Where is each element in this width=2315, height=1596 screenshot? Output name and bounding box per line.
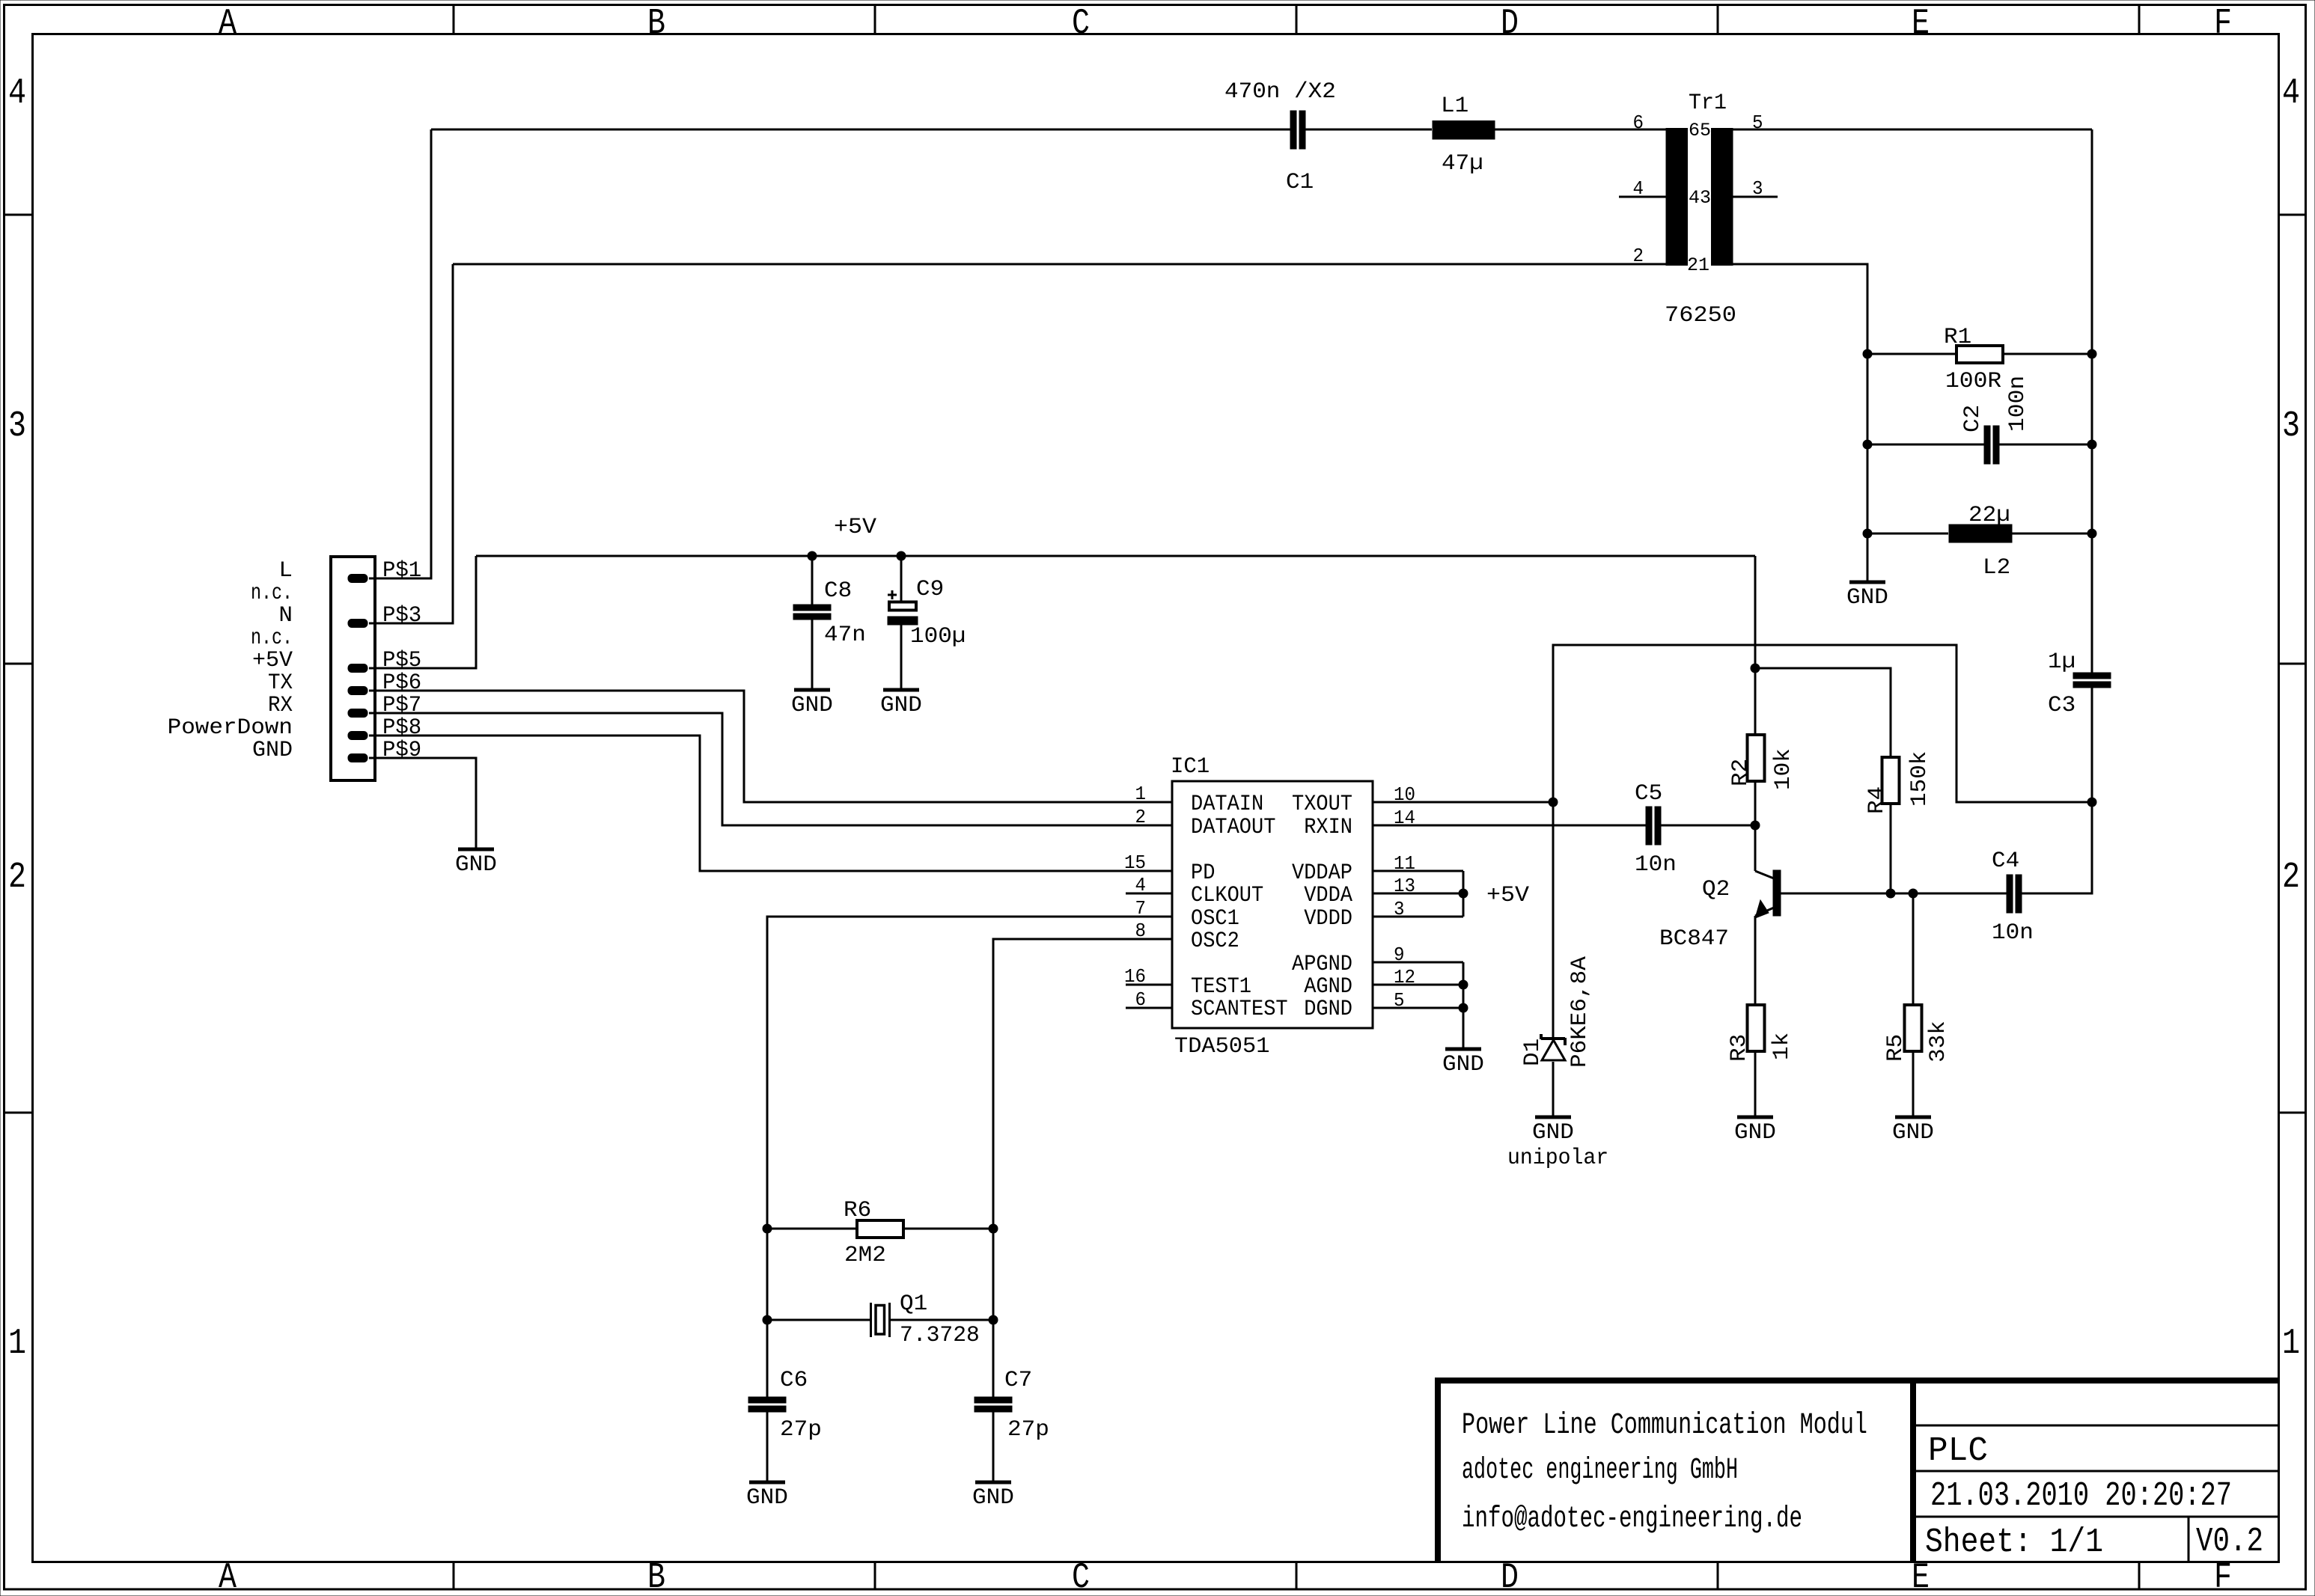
svg-text:DATAOUT: DATAOUT xyxy=(1191,815,1275,840)
junction L2 left xyxy=(1863,529,1873,539)
junction R6 left xyxy=(763,1224,772,1234)
svg-text:2: 2 xyxy=(2282,857,2300,898)
pin number 14 xyxy=(1394,807,1415,829)
wire R5 to ground xyxy=(1912,1051,1915,1117)
junction Q1 left xyxy=(763,1315,772,1325)
svg-text:Sheet: 1/1: Sheet: 1/1 xyxy=(1925,1523,2103,1562)
svg-text:N: N xyxy=(278,603,293,629)
pin number 15 xyxy=(1124,851,1146,874)
node +5V rail label xyxy=(834,515,876,540)
svg-text:1k: 1k xyxy=(1769,1033,1795,1060)
inductor L2 22u xyxy=(1949,503,2012,581)
svg-text:76250: 76250 xyxy=(1665,303,1736,328)
svg-text:DGND: DGND xyxy=(1304,997,1352,1022)
net label N xyxy=(278,603,293,629)
ground (R5) xyxy=(1892,1117,1934,1146)
wire P$7 RX to IC1 DATAOUT xyxy=(369,713,1172,825)
svg-text:L2: L2 xyxy=(1983,555,2010,581)
wire P$3 to AC line N xyxy=(369,264,453,623)
svg-text:GND: GND xyxy=(791,693,833,718)
pin number 9 xyxy=(1394,944,1405,966)
svg-text:APGND: APGND xyxy=(1292,952,1352,977)
wire Q2 base node xyxy=(1781,893,1913,895)
capacitor C2 100n xyxy=(1960,376,2031,464)
svg-text:2: 2 xyxy=(1135,806,1147,828)
resistor R6 2M2 xyxy=(844,1198,903,1268)
ground (R3) xyxy=(1734,1117,1776,1146)
pin number 10 xyxy=(1394,783,1415,806)
svg-text:7.3728: 7.3728 xyxy=(900,1323,980,1348)
wire C8 to ground xyxy=(811,620,814,690)
wire N line to Tr1 pin 2 xyxy=(453,263,1666,266)
svg-text:2M2: 2M2 xyxy=(844,1243,886,1268)
net label +5V xyxy=(252,648,293,673)
wire P$9 to ground xyxy=(369,758,476,849)
svg-text:2: 2 xyxy=(1633,245,1644,267)
svg-text:10n: 10n xyxy=(1635,852,1677,878)
wire C6 to ground xyxy=(766,1412,769,1482)
svg-text:CLKOUT: CLKOUT xyxy=(1191,883,1263,908)
wire TEST1 stub pin 16 xyxy=(1126,984,1172,986)
svg-text:C: C xyxy=(1072,4,1090,44)
svg-text:IC1: IC1 xyxy=(1171,754,1210,780)
ground (Tr1 secondary) xyxy=(1846,582,1888,611)
svg-text:PD: PD xyxy=(1191,860,1215,886)
junction TXOUT net at C3 xyxy=(2087,798,2097,807)
svg-text:47µ: 47µ xyxy=(1442,151,1483,177)
pin number 6 xyxy=(1135,988,1147,1011)
svg-text:A: A xyxy=(219,4,237,44)
pin number 5 xyxy=(1752,111,1763,134)
junction C2 right xyxy=(2087,440,2097,450)
wire right rail (Tr1 pin5 down to C3) xyxy=(2091,129,2093,673)
svg-text:R4: R4 xyxy=(1864,786,1890,814)
wire R6 right xyxy=(903,1228,993,1230)
junction VDDA node xyxy=(1459,889,1468,899)
svg-text:Q1: Q1 xyxy=(900,1291,927,1317)
svg-text:C3: C3 xyxy=(2048,693,2075,718)
svg-text:TX: TX xyxy=(268,670,293,696)
resistor R3 1k xyxy=(1727,1005,1795,1062)
junction C9 on +5V rail xyxy=(897,551,906,561)
capacitor C4 10n xyxy=(1992,849,2034,946)
net label L xyxy=(278,558,293,584)
wire base node down to R5 xyxy=(1912,893,1915,1005)
svg-text:GND: GND xyxy=(1442,1052,1484,1077)
svg-text:3: 3 xyxy=(2282,406,2300,447)
svg-text:27p: 27p xyxy=(1007,1417,1049,1443)
wire R4 to base node xyxy=(1890,804,1892,893)
connector (9-pin header) xyxy=(331,557,375,780)
net label TX xyxy=(268,670,293,696)
svg-text:43: 43 xyxy=(1689,187,1711,209)
junction R1 left xyxy=(1863,349,1873,359)
pin label P$6 xyxy=(382,670,421,696)
junction Q2 collector node xyxy=(1751,821,1760,831)
wire RXIN pin14 to C5 xyxy=(1373,825,1646,827)
pin number 16 xyxy=(1124,965,1146,988)
net label GND xyxy=(252,738,293,763)
net label n.c. xyxy=(251,626,293,651)
svg-text:R2: R2 xyxy=(1728,759,1754,786)
wire Tr1 pin 1 down to ground xyxy=(1733,264,1867,582)
title text: sheet xyxy=(1925,1523,2103,1562)
junction L2 right xyxy=(2087,529,2097,539)
svg-text:P6KE6,8A: P6KE6,8A xyxy=(1567,956,1593,1068)
svg-text:+5V: +5V xyxy=(1486,883,1529,908)
junction TXOUT at D1 xyxy=(1549,798,1558,807)
svg-text:15: 15 xyxy=(1124,851,1146,874)
resistor R4 150k xyxy=(1864,751,1933,814)
svg-text:PowerDown: PowerDown xyxy=(168,715,293,741)
wire Tr1 pin 5 to right rail xyxy=(1733,129,2092,131)
svg-text:F: F xyxy=(2214,1558,2232,1596)
op-amp U1 / modem IC1 TDA5051 xyxy=(1171,754,1373,1060)
wire R2 to collector node xyxy=(1754,781,1757,825)
svg-text:2: 2 xyxy=(8,857,26,898)
svg-text:P$5: P$5 xyxy=(382,648,421,673)
pin number 2 xyxy=(1633,245,1644,267)
svg-text:AGND: AGND xyxy=(1304,974,1352,1000)
svg-text:SCANTEST: SCANTEST xyxy=(1191,997,1288,1022)
wire C2 to rail xyxy=(1999,444,2092,446)
pin number 5 xyxy=(1394,989,1405,1012)
svg-text:E: E xyxy=(1912,4,1930,44)
svg-text:n.c.: n.c. xyxy=(251,626,293,651)
svg-text:C1: C1 xyxy=(1286,170,1314,195)
svg-text:PLC: PLC xyxy=(1928,1432,1988,1470)
svg-text:C5: C5 xyxy=(1635,781,1662,807)
svg-text:P$8: P$8 xyxy=(382,715,421,741)
svg-text:GND: GND xyxy=(1846,585,1888,611)
junction AGND node xyxy=(1459,980,1468,990)
ground (C8) xyxy=(791,690,833,718)
svg-text:21: 21 xyxy=(1687,254,1709,276)
wire CLKOUT stub pin 4 xyxy=(1126,893,1172,895)
junction base/R5 xyxy=(1909,889,1918,899)
svg-text:Tr1: Tr1 xyxy=(1689,91,1727,116)
svg-text:C2: C2 xyxy=(1960,405,1986,432)
wire APGND/AGND/DGND to ground xyxy=(1373,962,1463,1049)
svg-text:10n: 10n xyxy=(1992,920,2034,946)
pin numbers 2-1 inner xyxy=(1687,254,1709,276)
svg-text:F: F xyxy=(2214,4,2232,44)
svg-text:D1: D1 xyxy=(1520,1039,1546,1066)
wire +5V branch to R4 xyxy=(1755,668,1891,757)
svg-text:TDA5051: TDA5051 xyxy=(1174,1034,1269,1060)
inductor L1 47u xyxy=(1433,94,1495,177)
ground (C6) xyxy=(746,1482,788,1511)
svg-text:VDDA: VDDA xyxy=(1304,883,1352,908)
svg-text:1: 1 xyxy=(1135,783,1147,805)
svg-text:C8: C8 xyxy=(824,578,852,604)
junction C8 on +5V rail xyxy=(808,551,817,561)
svg-text:GND: GND xyxy=(1532,1120,1574,1146)
svg-text:Q2: Q2 xyxy=(1702,877,1730,902)
svg-text:P$6: P$6 xyxy=(382,670,421,696)
svg-text:unipolar: unipolar xyxy=(1507,1146,1608,1171)
svg-text:A: A xyxy=(219,1558,237,1596)
title text: project description xyxy=(1462,1409,1867,1536)
svg-text:P$3: P$3 xyxy=(382,603,421,629)
pin number 8 xyxy=(1135,920,1147,942)
svg-text:4: 4 xyxy=(1633,177,1644,200)
svg-text:P$1: P$1 xyxy=(382,558,421,584)
svg-text:TXOUT: TXOUT xyxy=(1292,792,1352,817)
wire to L2 xyxy=(1867,533,1948,535)
capacitor C7 27p xyxy=(975,1368,1049,1443)
svg-text:GND: GND xyxy=(1892,1120,1934,1146)
svg-text:100µ: 100µ xyxy=(910,624,966,649)
wire R3 to ground xyxy=(1754,1051,1757,1117)
net label n.c. xyxy=(251,581,293,606)
resistor R5 33k xyxy=(1883,1005,1951,1063)
svg-text:C: C xyxy=(1072,1558,1090,1596)
pin number 4 xyxy=(1633,177,1644,200)
pin number 11 xyxy=(1394,852,1415,875)
pin label P$8 xyxy=(382,715,421,741)
svg-text:150k: 150k xyxy=(1907,751,1933,807)
svg-text:+5V: +5V xyxy=(834,515,876,540)
svg-text:DATAIN: DATAIN xyxy=(1191,792,1263,817)
pin number 3 xyxy=(1752,177,1763,200)
svg-text:VDDAP: VDDAP xyxy=(1292,860,1352,886)
svg-text:GND: GND xyxy=(746,1485,788,1511)
svg-text:100n: 100n xyxy=(2005,376,2031,432)
title block frame xyxy=(1435,1378,2279,1563)
svg-text:info@adotec-engineering.de: info@adotec-engineering.de xyxy=(1462,1502,1802,1536)
svg-text:C9: C9 xyxy=(916,577,944,602)
pin number 12 xyxy=(1394,966,1415,988)
svg-text:BC847: BC847 xyxy=(1659,926,1729,952)
ground (D1, unipolar) xyxy=(1532,1117,1574,1146)
wire +5V to C9 xyxy=(900,556,903,602)
wire VDDAP/VDDA/VDDD to +5V xyxy=(1373,871,1463,917)
svg-text:4: 4 xyxy=(2282,73,2300,114)
wire OSC2 pin8 to crystal right column xyxy=(993,939,1172,1397)
svg-text:65: 65 xyxy=(1689,120,1711,141)
svg-text:R1: R1 xyxy=(1944,325,1971,350)
svg-text:B: B xyxy=(647,1558,665,1596)
svg-text:L: L xyxy=(278,558,293,584)
pin number 4 xyxy=(1135,874,1147,896)
svg-text:n.c.: n.c. xyxy=(251,581,293,606)
pin label P$3 xyxy=(382,603,421,629)
wire TXOUT node up and over to C3 xyxy=(1553,645,2092,1039)
capacitor C5 10n xyxy=(1635,781,1677,878)
wire D1 to ground xyxy=(1552,1062,1555,1117)
svg-text:C4: C4 xyxy=(1992,849,2019,874)
wire Q1 left xyxy=(767,1319,870,1321)
transformer Tr1 76250 xyxy=(1619,91,1778,328)
svg-text:P$7: P$7 xyxy=(382,693,421,718)
svg-text:1µ: 1µ xyxy=(2048,649,2075,675)
title text: date xyxy=(1930,1477,2232,1515)
capacitor C9 100u polarized xyxy=(888,577,966,649)
wire TXOUT pin10 to D1 node xyxy=(1373,801,1553,804)
svg-text:RX: RX xyxy=(268,693,293,718)
transient diode D1 P6KE6,8A xyxy=(1520,956,1593,1068)
capacitor C6 27p xyxy=(748,1368,822,1443)
svg-text:3: 3 xyxy=(1752,177,1763,200)
wire C4 to Q2 base node xyxy=(1913,893,2007,895)
wire SCANTEST stub pin 6 xyxy=(1126,1007,1172,1009)
svg-text:6: 6 xyxy=(1633,111,1644,134)
svg-text:4: 4 xyxy=(8,73,26,114)
ground (connector) xyxy=(455,849,497,878)
svg-text:RXIN: RXIN xyxy=(1304,815,1352,840)
svg-text:3: 3 xyxy=(8,406,26,447)
svg-text:+5V: +5V xyxy=(252,648,293,673)
svg-text:R6: R6 xyxy=(844,1198,871,1223)
net label PowerDown xyxy=(168,715,293,741)
pin numbers 6-5 inner xyxy=(1689,120,1711,141)
pin number 2 xyxy=(1135,806,1147,828)
wire P$6 TX to IC1 DATAIN xyxy=(369,691,1172,802)
svg-text:GND: GND xyxy=(455,852,497,878)
crystal Q1 7.3728 xyxy=(871,1291,980,1348)
svg-text:D: D xyxy=(1501,1558,1519,1596)
wire R6 left xyxy=(767,1228,857,1230)
pin label P$7 xyxy=(382,693,421,718)
pin number 6 xyxy=(1633,111,1644,134)
svg-text:33k: 33k xyxy=(1926,1021,1951,1063)
svg-text:GND: GND xyxy=(1734,1120,1776,1146)
pin number 1 xyxy=(1135,783,1147,805)
wire +5V down to R2 xyxy=(1754,556,1757,735)
capacitor C8 47n xyxy=(793,578,866,648)
capacitor C3 1u xyxy=(2048,649,2111,718)
svg-text:OSC2: OSC2 xyxy=(1191,929,1239,954)
wire to C2 xyxy=(1867,444,1984,446)
wire +5V rail xyxy=(476,555,1755,557)
wire C7 to ground xyxy=(992,1412,995,1482)
svg-text:R5: R5 xyxy=(1883,1034,1909,1062)
svg-text:27p: 27p xyxy=(780,1417,822,1443)
junction DGND node xyxy=(1459,1003,1468,1013)
pin label P$9 xyxy=(382,738,421,763)
junction R6 right xyxy=(989,1224,998,1234)
svg-text:VDDD: VDDD xyxy=(1304,906,1352,932)
wire +5V to C8 xyxy=(811,556,814,605)
svg-text:C7: C7 xyxy=(1004,1368,1032,1393)
pin label P$1 xyxy=(382,558,421,584)
svg-text:GND: GND xyxy=(972,1485,1014,1511)
svg-text:L1: L1 xyxy=(1441,94,1468,119)
svg-text:TEST1: TEST1 xyxy=(1191,974,1251,1000)
wire C1 to L1 xyxy=(1305,129,1432,131)
transistor Q2 BC847 xyxy=(1659,825,1781,952)
svg-text:100R: 100R xyxy=(1945,369,2001,394)
junction C2 left xyxy=(1863,440,1873,450)
junction base/R4 xyxy=(1886,889,1896,899)
wire P$8 PowerDown to IC1 PD xyxy=(369,736,1172,871)
wire Q1 right xyxy=(891,1319,993,1321)
ground (IC1) xyxy=(1442,1049,1484,1077)
svg-text:470n /X2: 470n /X2 xyxy=(1224,79,1336,105)
pin numbers 4-3 inner xyxy=(1689,187,1711,209)
svg-text:D: D xyxy=(1501,4,1519,44)
title text: version xyxy=(2196,1523,2263,1561)
wire L2 to rail xyxy=(2011,533,2092,535)
pin number 3 xyxy=(1394,898,1405,920)
pin number 7 xyxy=(1135,897,1147,920)
wire Q2 emitter to R3 xyxy=(1754,916,1757,1005)
wire C3 down to C4 node xyxy=(2022,688,2092,893)
svg-text:P$9: P$9 xyxy=(382,738,421,763)
resistor R1 100R xyxy=(1944,325,2003,394)
wire R1 to rail xyxy=(2003,353,2092,355)
capacitor C1 470n/X2 xyxy=(1224,79,1336,195)
svg-text:B: B xyxy=(647,4,665,44)
svg-text:10k: 10k xyxy=(1771,748,1796,790)
svg-text:V0.2: V0.2 xyxy=(2196,1523,2263,1561)
wire C9 to ground xyxy=(900,622,903,690)
pin number 13 xyxy=(1394,875,1415,897)
svg-text:C6: C6 xyxy=(780,1368,808,1393)
+5V supply symbol at IC1 xyxy=(1486,883,1529,908)
junction +5V split xyxy=(1751,664,1760,673)
wire to R1 xyxy=(1867,353,1956,355)
wire L line to C1 xyxy=(431,129,1290,131)
wire P$1 to AC line L xyxy=(369,129,431,578)
svg-text:47n: 47n xyxy=(824,623,866,648)
wire C5 to Q2 collector node xyxy=(1661,825,1755,827)
title text: PLC xyxy=(1928,1432,1988,1470)
svg-text:E: E xyxy=(1912,1558,1930,1596)
pin label P$5 xyxy=(382,648,421,673)
svg-text:21.03.2010 20:20:27: 21.03.2010 20:20:27 xyxy=(1930,1477,2232,1515)
ground (C9) xyxy=(880,690,922,718)
net label RX xyxy=(268,693,293,718)
resistor R2 10k xyxy=(1728,735,1796,790)
junction Q1 right xyxy=(989,1315,998,1325)
svg-text:R3: R3 xyxy=(1727,1034,1752,1062)
wire L1 to Tr1 pin 6 xyxy=(1495,129,1666,131)
svg-text:GND: GND xyxy=(880,693,922,718)
wire OSC1 pin7 to crystal left column xyxy=(767,917,1172,1397)
junction R1 right xyxy=(2087,349,2097,359)
svg-text:1: 1 xyxy=(2282,1324,2300,1364)
wire P$5 to +5V rail xyxy=(369,556,476,668)
ground (C7) xyxy=(972,1482,1014,1511)
svg-text:adotec engineering GmbH: adotec engineering GmbH xyxy=(1462,1454,1738,1488)
svg-text:22µ: 22µ xyxy=(1968,503,2010,528)
svg-text:1: 1 xyxy=(8,1324,26,1364)
svg-text:OSC1: OSC1 xyxy=(1191,906,1239,932)
label unipolar xyxy=(1507,1146,1608,1171)
svg-text:GND: GND xyxy=(252,738,293,763)
svg-text:Power Line Communication Modul: Power Line Communication Modul xyxy=(1462,1409,1867,1443)
